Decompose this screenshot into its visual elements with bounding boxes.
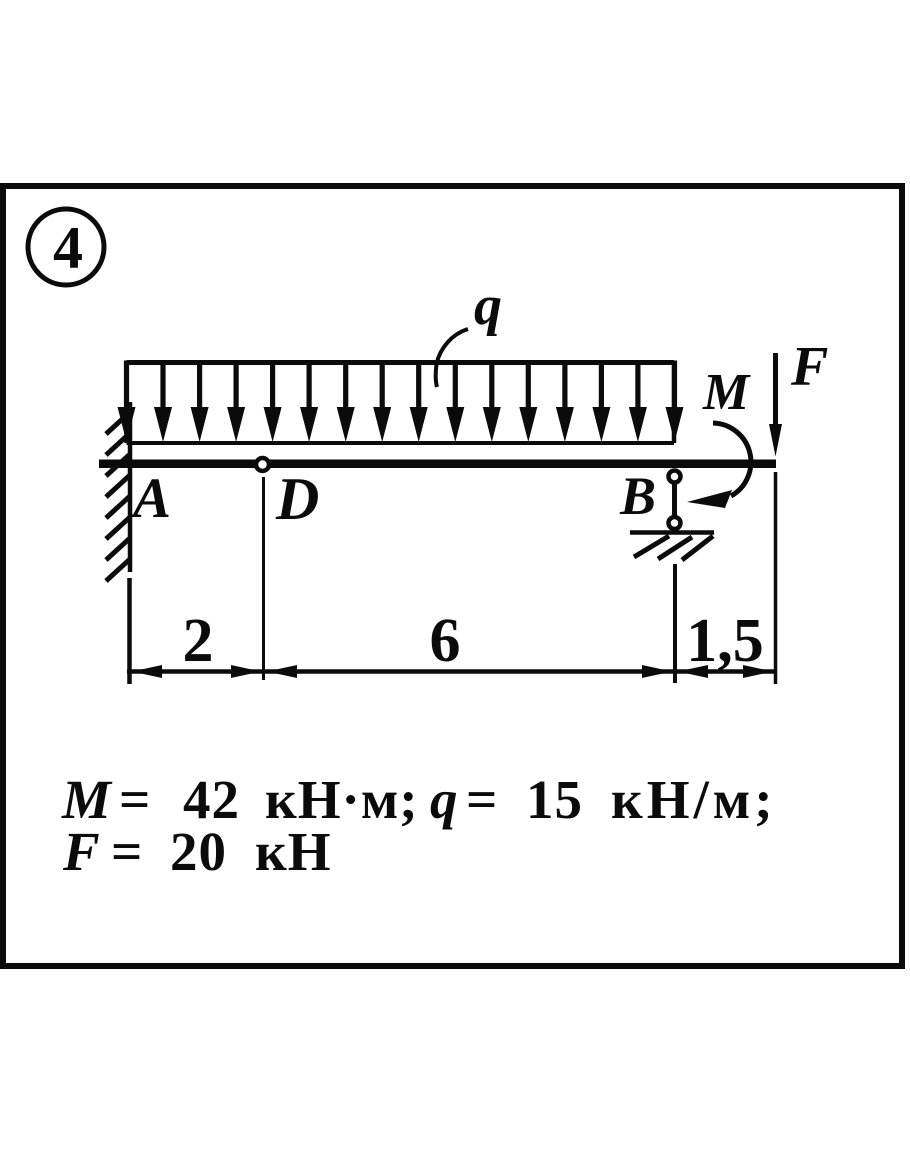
dimension line [127, 669, 776, 674]
distributed load right edge [672, 363, 677, 444]
svg-text:4: 4 [53, 215, 83, 281]
svg-text:M: M [702, 364, 751, 421]
beam [99, 460, 776, 469]
label D [275, 466, 319, 532]
dimension label 6 [430, 607, 461, 675]
extension line at A [127, 578, 132, 684]
q leader line [436, 329, 468, 387]
svg-text:1,5: 1,5 [686, 607, 764, 675]
extension line at B [673, 564, 677, 683]
fixed support wall at A [106, 402, 130, 581]
dimension label 1,5 [686, 607, 764, 675]
moment M arc arrow [687, 423, 751, 508]
dimension label 2 [183, 607, 214, 675]
given values text line 2 [62, 821, 331, 882]
distributed load top and bottom rails [127, 363, 675, 444]
hinge D [256, 458, 269, 471]
distributed load arrows [118, 361, 684, 443]
svg-text:D: D [275, 466, 319, 532]
svg-text:2: 2 [183, 607, 214, 675]
label F [790, 336, 828, 398]
svg-text:6: 6 [430, 607, 461, 675]
extension line at D [262, 477, 265, 680]
distributed load left edge [124, 363, 129, 444]
roller support B [630, 471, 714, 561]
svg-text:F: F [790, 336, 828, 398]
q label [474, 275, 502, 337]
dimension arrowheads [132, 665, 773, 678]
problem number circle 4 [28, 209, 104, 285]
extension line at beam right end [774, 472, 778, 684]
label M [702, 364, 751, 421]
svg-text:B: B [619, 466, 656, 526]
label A [130, 467, 171, 530]
svg-text:q: q [474, 275, 502, 337]
svg-text:A: A [130, 467, 171, 530]
force F arrow [769, 353, 782, 457]
problem frame border [3, 186, 902, 966]
label B [619, 466, 656, 526]
given values text line 1 [61, 769, 777, 830]
